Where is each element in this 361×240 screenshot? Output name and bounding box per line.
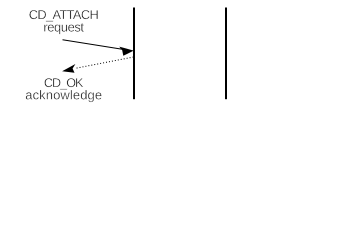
svg-text:request: request [43, 19, 84, 34]
svg-text:acknowledge: acknowledge [25, 87, 102, 102]
